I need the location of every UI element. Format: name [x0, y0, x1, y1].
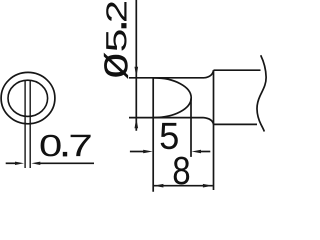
label 5: [161, 123, 178, 149]
0.7 dim line left tail: [6, 162, 16, 164]
label dia5.2 o-slash: [104, 53, 128, 79]
label dia5.2 digit 5: [106, 30, 126, 50]
technical dimension drawing of soldering tip: [0, 0, 270, 203]
front face + extension line: [152, 78, 154, 192]
arrow 5 right (left-pointing): [192, 150, 202, 154]
label dia5.2 digit 2: [106, 2, 126, 21]
label 8: [174, 157, 190, 185]
arrow dia5.2 top (down): [135, 67, 139, 78]
5 dim left tail: [130, 151, 144, 153]
shank bottom edge: [214, 123, 258, 125]
dia 5.2 dimension line: [135, 0, 137, 131]
label 0.7 digit 7: [71, 135, 91, 156]
fillet bottom: [204, 118, 214, 125]
arrow 8 right (right-pointing, inside): [203, 184, 213, 188]
slot line right: [29, 80, 31, 168]
label dia5.2 dot: [121, 23, 126, 28]
outer circle (end view): [1, 72, 55, 123]
shank top edge: [214, 69, 261, 71]
inner circle (end view): [8, 80, 48, 116]
arrow 8 left (left-pointing, inside): [154, 184, 164, 188]
arrow dia5.2 bottom (up): [135, 118, 139, 128]
arrow 0.7 left: [15, 162, 24, 165]
5 dim right extension: [190, 99, 192, 157]
label 0.7 dot: [63, 152, 67, 157]
joint line + extension: [213, 70, 215, 190]
break squiggle: [257, 55, 266, 131]
8 dim line: [154, 185, 213, 187]
0.7 dim line right tail: [39, 162, 94, 164]
side view: top edge: [129, 77, 204, 79]
bottom edge: [129, 117, 204, 119]
arrow 0.7 right: [31, 162, 40, 165]
label 0.7 digit 0: [41, 135, 61, 157]
D-curve half ellipse: [154, 78, 191, 118]
fillet top: [204, 70, 214, 78]
slot line left: [24, 80, 26, 168]
5 dim right tail: [201, 151, 211, 153]
arrow 5 left (right-pointing): [143, 150, 153, 154]
